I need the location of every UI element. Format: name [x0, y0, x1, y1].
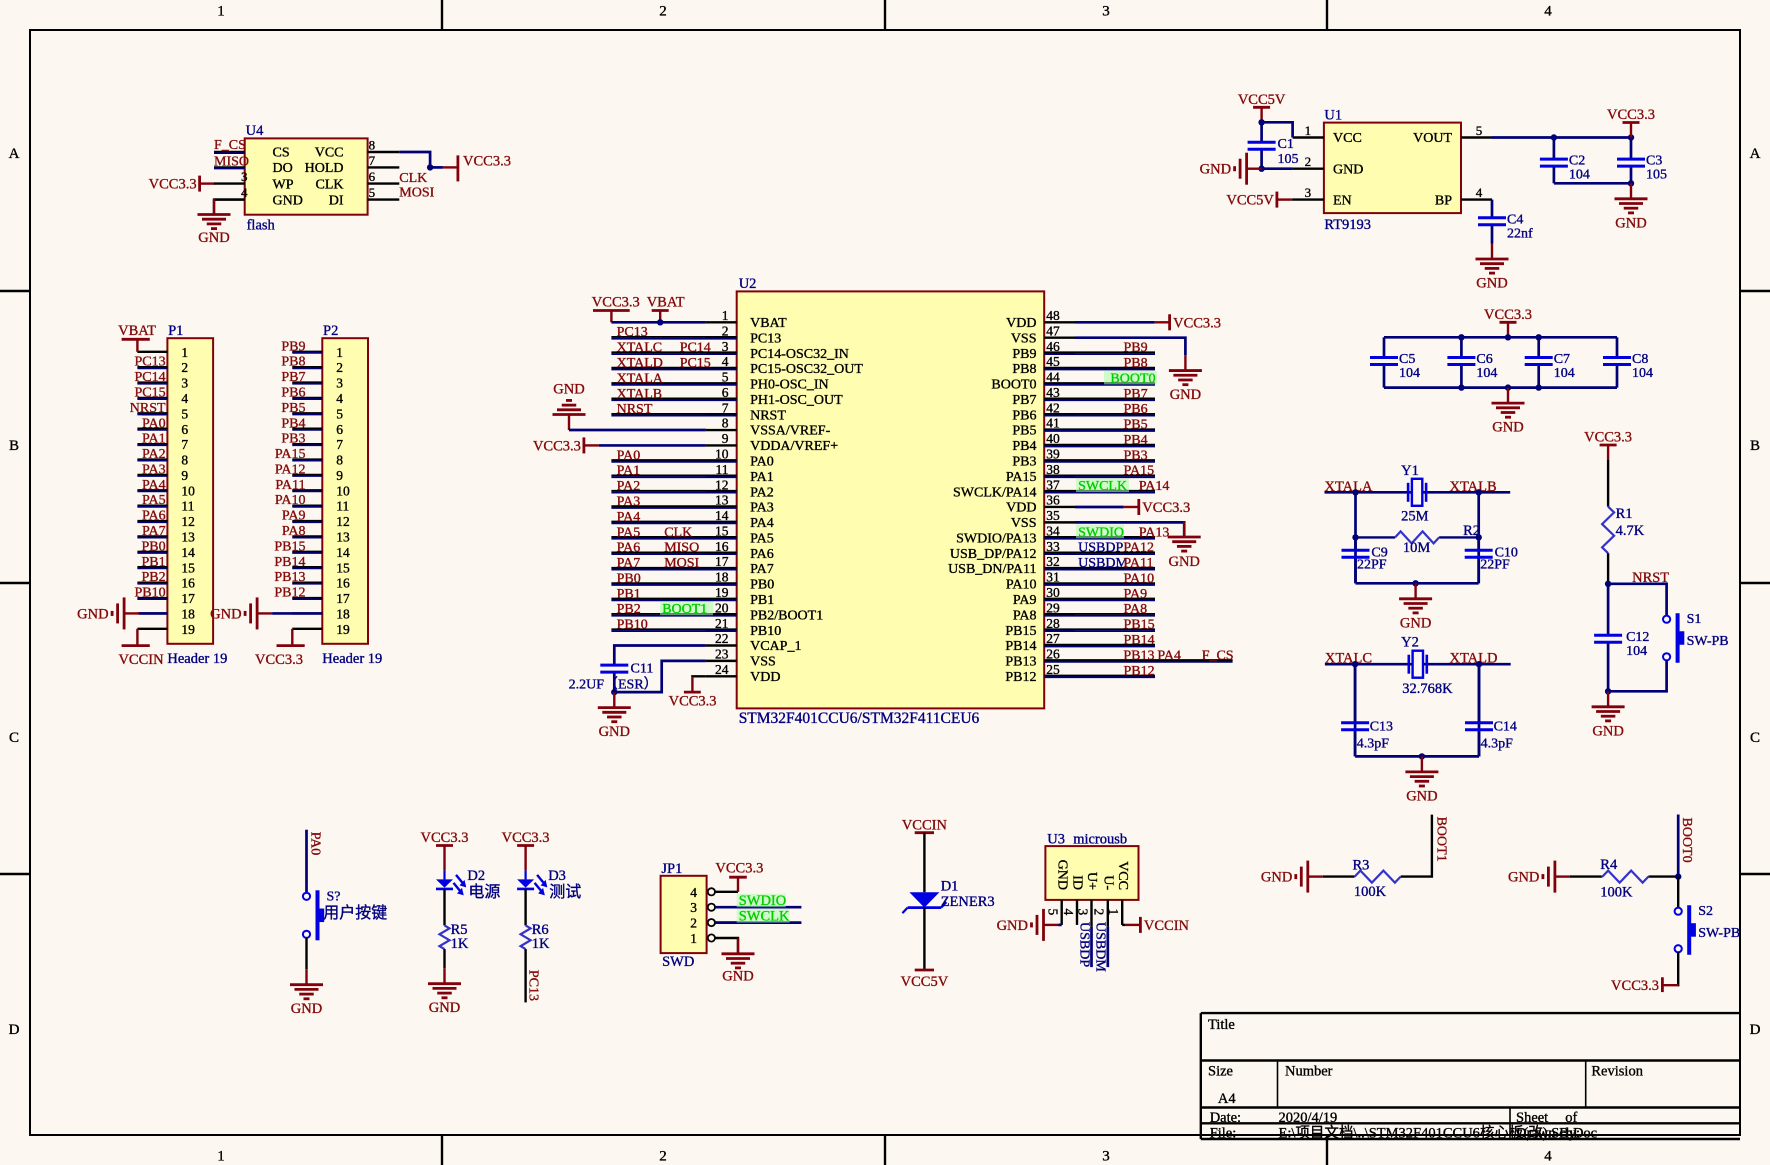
U2 pin names — [750, 316, 1036, 685]
svg-text:SWD: SWD — [662, 954, 694, 970]
svg-text:VCC3.3: VCC3.3 — [1611, 978, 1659, 994]
svg-text:17: 17 — [336, 591, 350, 606]
capacitor C8 104 — [1616, 337, 1619, 357]
switch S? user button — [303, 893, 310, 900]
svg-text:PB14: PB14 — [274, 555, 305, 570]
svg-text:U-: U- — [1100, 875, 1115, 890]
svg-text:C7: C7 — [1554, 352, 1570, 367]
junction BOOT0/S2 — [1675, 873, 1681, 879]
svg-text:3: 3 — [1102, 1149, 1110, 1165]
svg-text:U1: U1 — [1324, 108, 1342, 124]
wire R6 down PC13 — [524, 949, 526, 1002]
svg-text:GND: GND — [429, 1000, 460, 1016]
svg-text:microusb: microusb — [1073, 832, 1127, 848]
switch S2 SW-PB — [1675, 908, 1682, 915]
P1 pin stubs — [137, 352, 167, 629]
led D2 — [443, 861, 445, 871]
svg-text:PB2: PB2 — [141, 570, 165, 585]
svg-text:C5: C5 — [1399, 352, 1415, 367]
svg-text:B: B — [1750, 438, 1760, 454]
svg-text:PC13: PC13 — [750, 331, 781, 346]
capacitor C5 104 — [1383, 337, 1386, 357]
svg-text:4: 4 — [1476, 185, 1483, 200]
junction VOUT/C3 — [1628, 134, 1634, 140]
svg-text:PA0: PA0 — [617, 448, 641, 463]
power port VCC3.3 at U4 pin7-8 — [456, 155, 459, 181]
svg-text:PB10: PB10 — [750, 624, 781, 639]
svg-text:GND: GND — [77, 606, 108, 622]
svg-text:2: 2 — [181, 360, 188, 375]
svg-text:PA9: PA9 — [1013, 593, 1037, 608]
power port VCC3.3 above R1 — [1607, 445, 1609, 460]
svg-text:6: 6 — [336, 422, 343, 437]
svg-text:18: 18 — [181, 606, 195, 621]
U2 right net labels — [1124, 341, 1155, 679]
svg-text:1: 1 — [217, 1149, 225, 1165]
svg-text:C3: C3 — [1646, 154, 1662, 169]
svg-text:GND: GND — [1476, 276, 1507, 292]
ground above U2 pin8 — [568, 415, 570, 431]
wire C2/C3 bottom rail — [1554, 182, 1631, 185]
wire D1 to VCC5V — [923, 908, 925, 970]
wire U3 pin1 to VCCIN — [1122, 924, 1125, 926]
svg-text:PB6: PB6 — [1012, 408, 1036, 423]
resistor R6 1K — [524, 924, 526, 926]
svg-text:PC14: PC14 — [680, 341, 711, 356]
crystal Y2 32.768K — [1408, 655, 1411, 674]
svg-text:SWCLK: SWCLK — [1078, 479, 1127, 494]
svg-text:GND: GND — [1054, 860, 1069, 890]
svg-text:VSSA/VREF-: VSSA/VREF- — [750, 424, 830, 439]
header P2 body — [322, 338, 368, 644]
svg-text:MOSI: MOSI — [664, 556, 699, 571]
wire VCC5V to U1 pin1 — [1262, 122, 1293, 137]
svg-text:VCC3.3: VCC3.3 — [149, 177, 197, 193]
wire U4 pin8 VCC to VCC3.3 — [399, 152, 430, 167]
svg-text:5: 5 — [1476, 123, 1483, 138]
power port VCC3.3 at JP1 — [737, 877, 739, 892]
wire gnd to R4 — [1570, 875, 1601, 877]
title block frame — [1201, 1013, 1740, 1139]
svg-text:F_CS: F_CS — [214, 138, 246, 153]
wire gnd to R3 — [1323, 875, 1355, 877]
svg-text:PB5: PB5 — [1124, 418, 1148, 433]
JP1 pin circles and stubs — [708, 888, 737, 941]
svg-text:105: 105 — [1646, 168, 1667, 183]
power port VCC3.3 at U2 pin1 — [593, 309, 630, 312]
wire R3 to BOOT1 — [1401, 815, 1432, 877]
svg-text:7: 7 — [181, 437, 188, 452]
junction C11 bottom — [611, 689, 617, 695]
svg-text:10M: 10M — [1403, 540, 1431, 556]
svg-text:48: 48 — [1046, 308, 1060, 323]
svg-text:3: 3 — [690, 900, 697, 915]
power port VCC3.3 at U2 pin9 — [583, 437, 586, 453]
net label BOOT0 at U2 pin44 — [1104, 371, 1157, 385]
svg-text:VSS: VSS — [750, 655, 776, 670]
svg-text:PA1: PA1 — [617, 464, 641, 479]
svg-text:104: 104 — [1632, 366, 1653, 381]
wire VCCIN to D1 — [923, 833, 925, 893]
svg-text:12: 12 — [181, 514, 195, 529]
svg-text:4.3pF: 4.3pF — [1357, 737, 1390, 752]
svg-text:C14: C14 — [1494, 720, 1517, 735]
svg-text:VCC: VCC — [315, 146, 344, 161]
svg-text:10: 10 — [181, 483, 195, 498]
svg-text:8: 8 — [336, 453, 343, 468]
wire Y1 right leg — [1477, 492, 1480, 583]
svg-text:BOOT1: BOOT1 — [662, 602, 707, 617]
svg-text:VCCIN: VCCIN — [118, 652, 164, 668]
svg-text:GND: GND — [1200, 162, 1231, 178]
svg-text:PA15: PA15 — [275, 447, 306, 462]
svg-text:VCC5V: VCC5V — [1226, 193, 1274, 209]
svg-text:16: 16 — [181, 576, 195, 591]
svg-text:104: 104 — [1569, 168, 1590, 183]
svg-text:4: 4 — [1544, 4, 1552, 20]
power port VCC3.3 at U2 pin36 — [1075, 506, 1124, 509]
svg-text:18: 18 — [336, 606, 350, 621]
net label SWDIO — [737, 894, 786, 908]
svg-text:D: D — [1750, 1022, 1761, 1038]
wire C1 bottom to U1 pin2 — [1262, 167, 1293, 170]
svg-text:16: 16 — [336, 576, 350, 591]
wire U2 pin23 VSS down — [614, 661, 706, 692]
U3 pin stubs — [1062, 900, 1123, 927]
junction C12 bottom — [1605, 688, 1611, 694]
wire Y2 left leg — [1354, 664, 1357, 756]
svg-text:11: 11 — [336, 499, 349, 514]
ground at P1 pin18 — [124, 612, 139, 614]
svg-text:22nf: 22nf — [1507, 226, 1533, 241]
svg-text:19: 19 — [336, 622, 350, 637]
svg-text:USB_DP/PA12: USB_DP/PA12 — [950, 547, 1037, 562]
svg-text:PA15: PA15 — [1124, 464, 1155, 479]
svg-text:F_CS: F_CS — [1202, 648, 1234, 663]
ground below C12 — [1607, 691, 1609, 707]
svg-text:19: 19 — [181, 622, 195, 637]
svg-text:SWCLK/PA14: SWCLK/PA14 — [953, 485, 1037, 500]
svg-text:XTALD: XTALD — [617, 356, 663, 371]
svg-text:5: 5 — [369, 185, 376, 200]
flash U4 body — [245, 138, 368, 214]
svg-text:PA2: PA2 — [750, 485, 774, 500]
wire junction to power bar — [430, 166, 443, 169]
ground left of R4 — [1555, 875, 1570, 877]
svg-text:3: 3 — [1075, 909, 1090, 916]
wire SWDIO — [715, 906, 801, 909]
svg-text:JP1: JP1 — [661, 861, 682, 877]
svg-text:U3: U3 — [1047, 832, 1065, 848]
svg-text:PA6: PA6 — [142, 509, 166, 524]
ground left of R3 — [1308, 875, 1323, 877]
resistor R5 1K — [443, 924, 445, 926]
svg-text:PB12: PB12 — [1005, 670, 1036, 685]
resistor R2 10M — [1356, 536, 1396, 538]
power port VCCIN right of U3 — [1139, 917, 1142, 933]
svg-text:Revision: Revision — [1591, 1064, 1643, 1080]
svg-text:PB8: PB8 — [281, 355, 305, 370]
svg-text:PA9: PA9 — [1124, 587, 1148, 602]
svg-text:D3: D3 — [548, 868, 566, 884]
svg-text:14: 14 — [336, 545, 350, 560]
power port VCC3.3 at P2 pin19 — [291, 629, 293, 646]
capacitor C6 104 — [1460, 337, 1463, 357]
svg-text:BOOT0: BOOT0 — [1110, 371, 1155, 386]
svg-text:PB8: PB8 — [1012, 362, 1036, 377]
svg-text:A: A — [1750, 146, 1761, 162]
svg-text:R4: R4 — [1600, 857, 1618, 873]
svg-text:3: 3 — [181, 376, 188, 391]
svg-text:SWCLK: SWCLK — [739, 909, 790, 925]
svg-text:104: 104 — [1476, 366, 1497, 381]
svg-text:电源: 电源 — [468, 883, 500, 901]
svg-text:PC13: PC13 — [526, 970, 541, 1001]
svg-text:CLK: CLK — [399, 171, 427, 186]
svg-text:Size: Size — [1208, 1064, 1233, 1080]
wire R1 to junction — [1607, 553, 1609, 584]
junction C1/GND — [1258, 166, 1264, 172]
net labels SWDIO PA13 — [1076, 525, 1124, 539]
svg-text:BP: BP — [1435, 193, 1452, 208]
power port VBAT at U2 pin1 — [652, 309, 669, 312]
ground below R5 — [443, 968, 445, 984]
svg-text:USB_DN/PA11: USB_DN/PA11 — [948, 562, 1036, 577]
wire U2 pin35 VSS to ground — [1075, 522, 1184, 537]
net label SWCLK — [737, 909, 790, 923]
svg-text:VDDA/VREF+: VDDA/VREF+ — [750, 439, 838, 454]
header P1 body — [167, 338, 213, 644]
svg-text:USBDP: USBDP — [1076, 922, 1091, 967]
svg-text:2020/4/19: 2020/4/19 — [1279, 1110, 1338, 1126]
svg-text:PH1-OSC_OUT: PH1-OSC_OUT — [750, 393, 843, 408]
svg-text:ID: ID — [1070, 875, 1085, 890]
svg-text:GND: GND — [1592, 723, 1623, 739]
svg-text:8: 8 — [722, 416, 729, 431]
svg-text:GND: GND — [1492, 420, 1523, 436]
wire VCC5V bar to pin3 — [1291, 198, 1294, 200]
ground below U2 pin35 — [1183, 522, 1185, 538]
wire U2 pin24 VDD down — [692, 675, 706, 678]
svg-text:1: 1 — [722, 308, 729, 323]
ground below rail — [1507, 388, 1509, 404]
U1 pin names — [1333, 131, 1452, 208]
svg-text:C: C — [1750, 730, 1760, 746]
wire U2 pin26 F_CS — [1044, 659, 1232, 661]
ground left of C1 — [1247, 167, 1262, 169]
svg-text:PA3: PA3 — [142, 462, 166, 477]
svg-text:VCC3.3: VCC3.3 — [715, 860, 763, 876]
svg-text:Title: Title — [1208, 1017, 1235, 1033]
svg-text:GND: GND — [997, 918, 1028, 934]
svg-text:PB0: PB0 — [141, 539, 165, 554]
power port VCCIN at P1 pin19 — [136, 629, 138, 646]
svg-text:PA4: PA4 — [1157, 648, 1181, 663]
junction C3 bottom — [1628, 180, 1634, 186]
svg-text:VCC3.3: VCC3.3 — [1142, 500, 1190, 516]
svg-text:EN: EN — [1333, 193, 1352, 208]
svg-text:GND: GND — [553, 381, 584, 397]
svg-text:PB12: PB12 — [274, 586, 305, 601]
svg-text:PA8: PA8 — [1013, 608, 1037, 623]
junction U4 VCC/HOLD — [427, 164, 433, 170]
svg-text:CLK: CLK — [664, 525, 692, 540]
svg-text:GND: GND — [1168, 554, 1199, 570]
svg-text:1: 1 — [1106, 909, 1121, 916]
svg-text:DO: DO — [273, 161, 293, 176]
capacitor C1 105 — [1260, 122, 1263, 142]
resistor R4 100K — [1601, 875, 1602, 877]
svg-text:of: of — [1565, 1110, 1577, 1126]
svg-text:6: 6 — [369, 169, 376, 184]
ground below S? — [305, 969, 307, 985]
svg-text:S1: S1 — [1687, 612, 1702, 627]
svg-text:PA7: PA7 — [617, 556, 641, 571]
title block texts — [1208, 1017, 1644, 1142]
wire VCC3.3 to U4 pin3 — [213, 182, 216, 184]
svg-text:PB5: PB5 — [1012, 424, 1036, 439]
svg-text:2: 2 — [336, 360, 343, 375]
svg-text:BOOT1: BOOT1 — [1433, 817, 1448, 862]
svg-text:GND: GND — [1170, 387, 1201, 403]
svg-text:XTALC: XTALC — [617, 341, 663, 356]
svg-text:ZENER3: ZENER3 — [941, 894, 995, 910]
regulator U1 body — [1324, 123, 1461, 214]
decoupling rail top — [1384, 336, 1617, 339]
wire junction to S2 — [1677, 877, 1679, 908]
svg-text:PA14: PA14 — [1139, 479, 1170, 494]
svg-text:SWDIO: SWDIO — [739, 893, 787, 909]
svg-text:PB0: PB0 — [750, 578, 774, 593]
wire JP1 pin1 to ground — [737, 938, 739, 954]
wire Y1 left leg — [1354, 492, 1357, 583]
svg-text:PB4: PB4 — [1124, 433, 1148, 448]
svg-text:Sheet: Sheet — [1516, 1110, 1548, 1126]
junction XTALC — [1352, 661, 1358, 667]
svg-text:C: C — [9, 730, 19, 746]
svg-text:VDD: VDD — [1006, 501, 1036, 516]
svg-text:PB0: PB0 — [617, 571, 641, 586]
svg-text:WP: WP — [273, 177, 294, 192]
svg-text:3: 3 — [1305, 185, 1312, 200]
svg-text:8: 8 — [181, 453, 188, 468]
svg-text:File:: File: — [1210, 1126, 1237, 1142]
wire ground to P1 pin18 — [139, 612, 167, 615]
P1 pin numbers — [181, 345, 195, 637]
svg-text:PA13: PA13 — [1139, 525, 1170, 540]
wire BOOT0 up — [1677, 815, 1680, 877]
svg-text:PB12: PB12 — [1124, 664, 1155, 679]
svg-text:105: 105 — [1278, 152, 1299, 167]
svg-text:PB1: PB1 — [750, 593, 774, 608]
mcu U2 body — [737, 291, 1044, 708]
junction Y1 gnd — [1412, 580, 1418, 586]
svg-text:PH0-OSC_IN: PH0-OSC_IN — [750, 378, 829, 393]
svg-text:9: 9 — [181, 468, 188, 483]
wire Y1 bottom rail — [1356, 582, 1479, 585]
svg-text:PC15: PC15 — [680, 356, 711, 371]
wire U2 pin1 — [611, 321, 706, 324]
svg-text:GND: GND — [599, 724, 630, 740]
svg-text:C6: C6 — [1476, 352, 1492, 367]
svg-text:PB5: PB5 — [281, 401, 305, 416]
svg-text:PB7: PB7 — [281, 370, 305, 385]
capacitor C13 4.3pF — [1354, 664, 1357, 723]
svg-text:SW-PB: SW-PB — [1698, 926, 1740, 941]
svg-text:C12: C12 — [1626, 630, 1649, 645]
wire PA0 to S? — [305, 830, 308, 893]
svg-text:GND: GND — [1400, 615, 1431, 631]
svg-text:104: 104 — [1399, 366, 1420, 381]
wire U2 pin22 VCAP_1 to C11 — [614, 645, 706, 658]
junction Y2 gnd — [1419, 753, 1425, 759]
switch S1 SW-PB — [1663, 616, 1670, 623]
svg-text:C8: C8 — [1632, 352, 1648, 367]
svg-text:VCC3.3: VCC3.3 — [1484, 307, 1532, 323]
svg-text:PB9: PB9 — [281, 339, 305, 354]
svg-text:PB7: PB7 — [1012, 393, 1036, 408]
svg-text:VBAT: VBAT — [750, 316, 787, 331]
svg-text:1: 1 — [690, 931, 697, 946]
svg-text:VBAT: VBAT — [118, 323, 156, 339]
ground below U2 pin47 — [1184, 355, 1186, 371]
svg-text:HOLD: HOLD — [305, 161, 344, 176]
svg-text:104: 104 — [1626, 644, 1647, 659]
svg-text:4: 4 — [241, 185, 248, 200]
power port VCC3.3 above D2 — [443, 846, 445, 861]
svg-text:GND: GND — [291, 1001, 322, 1017]
svg-text:104: 104 — [1554, 366, 1575, 381]
connector U3 body — [1045, 846, 1138, 900]
svg-text:VCC5V: VCC5V — [1238, 92, 1286, 108]
junction VOUT/C2 — [1551, 134, 1557, 140]
svg-text:PA9: PA9 — [282, 509, 306, 524]
U4 right pins 8-5 — [368, 138, 400, 201]
svg-text:1: 1 — [181, 345, 188, 360]
svg-text:PA12: PA12 — [275, 462, 306, 477]
svg-text:P2: P2 — [323, 323, 338, 339]
svg-text:VBAT: VBAT — [647, 294, 685, 310]
svg-text:PB6: PB6 — [281, 385, 305, 400]
svg-text:PB1: PB1 — [617, 587, 641, 602]
svg-text:GND: GND — [1333, 162, 1363, 177]
svg-text:Y1: Y1 — [1401, 463, 1419, 479]
svg-text:PA15: PA15 — [1006, 470, 1037, 485]
wire U2 pin47 VSS to ground — [1075, 338, 1185, 355]
svg-text:PB2/BOOT1: PB2/BOOT1 — [750, 608, 823, 623]
svg-text:PA5: PA5 — [750, 531, 774, 546]
wire U2 pin8 — [569, 429, 706, 432]
svg-text:D1: D1 — [941, 879, 959, 895]
svg-text:VCC3.3: VCC3.3 — [502, 830, 550, 846]
svg-text:PB10: PB10 — [617, 618, 648, 633]
wire U2 pin9 — [599, 444, 706, 447]
U4 left pins 1-4 — [214, 152, 248, 200]
wire S2 bottom to VCC3.3 — [1676, 952, 1679, 985]
svg-text:PC14-OSC32_IN: PC14-OSC32_IN — [750, 347, 849, 362]
junction XTALD — [1476, 661, 1482, 667]
wire USBDP down — [1090, 927, 1093, 967]
svg-text:GND: GND — [1508, 870, 1539, 886]
svg-text:DI: DI — [329, 193, 344, 208]
svg-text:A: A — [9, 146, 20, 162]
svg-text:GND: GND — [1261, 870, 1292, 886]
svg-text:PC15-OSC32_OUT: PC15-OSC32_OUT — [750, 362, 863, 377]
svg-text:PB9: PB9 — [1012, 347, 1036, 362]
svg-text:GND: GND — [1406, 788, 1437, 804]
wire U4 pin4 to ground — [214, 200, 245, 215]
svg-text:PA2: PA2 — [142, 447, 166, 462]
